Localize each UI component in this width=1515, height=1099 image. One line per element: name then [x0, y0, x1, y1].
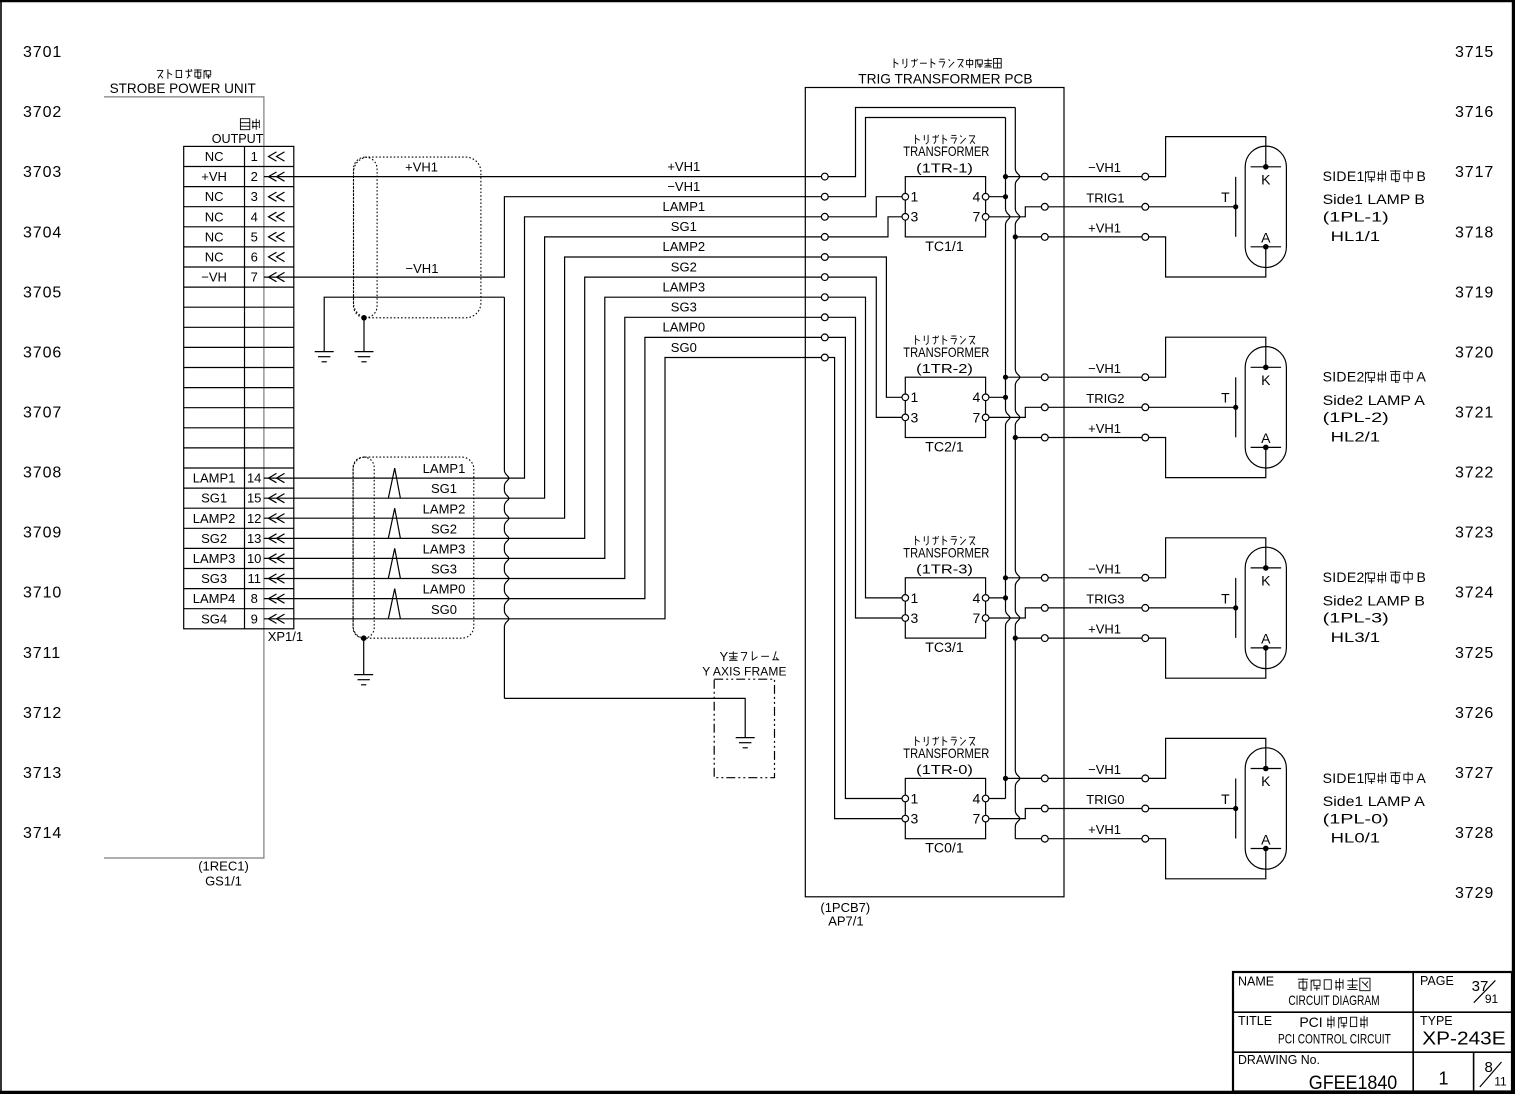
trigger electrode T of lamp HL0/1 — [1221, 779, 1236, 839]
svg-text:15: 15 — [247, 491, 261, 506]
svg-text:(1PL-1): (1PL-1) — [1323, 209, 1389, 225]
svg-text:3718: 3718 — [1455, 224, 1494, 241]
twisted pair mark LAMP3/SG3 — [388, 548, 400, 578]
svg-text:3714: 3714 — [23, 825, 62, 842]
svg-text:LAMP2: LAMP2 — [423, 501, 466, 516]
svg-text:14: 14 — [247, 471, 261, 486]
svg-text:GS1/1: GS1/1 — [205, 873, 242, 888]
trig transformer PCB board outline AP7/1 — [805, 88, 1064, 897]
svg-text:10: 10 — [247, 551, 261, 566]
svg-text:3710: 3710 — [23, 585, 62, 602]
svg-text:11: 11 — [1494, 1074, 1507, 1088]
svg-text:3719: 3719 — [1455, 284, 1494, 301]
svg-text:Side2 LAMP B: Side2 LAMP B — [1323, 593, 1425, 608]
trigger electrode T of lamp HL1/1 — [1221, 177, 1236, 237]
svg-text:TRIG1: TRIG1 — [1086, 190, 1124, 205]
svg-text:LAMP0: LAMP0 — [423, 582, 466, 597]
svg-text:SG3: SG3 — [201, 571, 227, 586]
wire SG1 from XP1 row to transformer TC1/1 pin 3 — [264, 217, 905, 498]
svg-text:TRIG0: TRIG0 — [1086, 792, 1124, 807]
svg-text:TRIG3: TRIG3 — [1086, 592, 1124, 607]
svg-text:3: 3 — [251, 189, 258, 204]
svg-text:5: 5 — [251, 229, 258, 244]
net labels -VH1 TRIG1 +VH1 at lamp 1 — [1086, 160, 1124, 235]
left grid row numbers 3701-3714 — [23, 44, 62, 842]
svg-text:7: 7 — [973, 209, 981, 225]
wire TC1/1 pin4 to -VH1 bus — [986, 196, 1006, 198]
svg-text:(1TR-0): (1TR-0) — [916, 762, 973, 777]
svg-text:1: 1 — [911, 790, 919, 806]
svg-text:+VH1: +VH1 — [1088, 622, 1121, 637]
svg-text:TC0/1: TC0/1 — [925, 841, 963, 856]
svg-text:LAMP1: LAMP1 — [662, 199, 705, 214]
wire TC3/1 pin4 to -VH1 bus — [986, 597, 1006, 599]
svg-text:8: 8 — [251, 591, 258, 606]
svg-text:SG0: SG0 — [671, 340, 697, 355]
wire TRIG0 from TC0/1 pin7 to lamp trigger — [986, 809, 1236, 819]
svg-text:3723: 3723 — [1455, 525, 1494, 542]
svg-text:NC: NC — [205, 189, 224, 204]
svg-text:A: A — [1261, 831, 1271, 847]
svg-text:CIRCUIT DIAGRAM: CIRCUIT DIAGRAM — [1288, 992, 1379, 1008]
lamp HL2/1 name labels — [1323, 369, 1427, 445]
svg-text:T: T — [1221, 390, 1230, 406]
svg-text:A: A — [1261, 430, 1271, 446]
lamp HL3/1 name labels — [1323, 569, 1426, 645]
svg-text:LAMP2: LAMP2 — [662, 239, 705, 254]
lamp HL1/1 name labels — [1323, 168, 1426, 244]
svg-text:TRANSFORMER: TRANSFORMER — [903, 344, 989, 360]
svg-text:7: 7 — [973, 409, 981, 425]
svg-text:LAMP3: LAMP3 — [662, 279, 705, 294]
(1REC1) GS1/1 unit reference labels — [198, 859, 249, 889]
svg-text:SG1: SG1 — [431, 481, 457, 496]
svg-text:+VH: +VH — [201, 169, 227, 184]
svg-text:Side2 LAMP A: Side2 LAMP A — [1323, 393, 1425, 408]
svg-text:(1PL-0): (1PL-0) — [1323, 810, 1389, 826]
svg-text:3: 3 — [911, 209, 919, 225]
svg-text:3: 3 — [911, 409, 919, 425]
svg-text:TC3/1: TC3/1 — [925, 640, 963, 655]
svg-text:B: B — [1417, 168, 1426, 184]
svg-text:3: 3 — [911, 811, 919, 827]
svg-text:+VH1: +VH1 — [667, 159, 700, 174]
svg-text:SIDE2: SIDE2 — [1323, 369, 1365, 385]
wire +VH1 output to lamp HL1/1 anode — [1013, 234, 1018, 239]
svg-text:3728: 3728 — [1455, 825, 1494, 842]
svg-text:TC2/1: TC2/1 — [925, 439, 963, 454]
svg-text:K: K — [1261, 573, 1271, 589]
svg-text:LAMP2: LAMP2 — [193, 511, 236, 526]
svg-text:K: K — [1261, 773, 1271, 789]
svg-text:+VH1: +VH1 — [1088, 822, 1121, 837]
svg-text:LAMP1: LAMP1 — [423, 461, 466, 476]
connector chevron arrows on XP1 rows — [269, 152, 285, 624]
svg-text:3708: 3708 — [23, 465, 62, 482]
svg-text:3722: 3722 — [1455, 465, 1494, 482]
svg-text:3704: 3704 — [23, 224, 62, 241]
svg-text:PAGE: PAGE — [1420, 974, 1454, 988]
trigger electrode T of lamp HL2/1 — [1221, 377, 1236, 437]
svg-text:LAMP0: LAMP0 — [662, 320, 705, 335]
svg-text:SIDE1: SIDE1 — [1323, 770, 1365, 786]
PCB edge connector circles (left entries) — [821, 173, 828, 361]
Y axis frame (dash-dot box) with labels — [702, 649, 786, 778]
transformer TC1/1 (1TR-1) — [903, 135, 989, 254]
svg-text:3720: 3720 — [1455, 345, 1494, 362]
svg-text:SG3: SG3 — [671, 300, 697, 315]
svg-text:XP-243E: XP-243E — [1422, 1027, 1505, 1048]
svg-text:LAMP3: LAMP3 — [423, 542, 466, 557]
shield drain dot and ground for +VH1/-VH1 shield — [355, 315, 374, 362]
svg-text:3729: 3729 — [1455, 885, 1494, 902]
svg-text:Side1 LAMP B: Side1 LAMP B — [1323, 192, 1425, 207]
net labels -VH1 TRIG2 +VH1 at lamp 2 — [1086, 361, 1124, 436]
svg-text:SIDE2: SIDE2 — [1323, 569, 1365, 585]
svg-text:(1PL-3): (1PL-3) — [1323, 610, 1389, 626]
wire -VH1 output to lamp HL3/1 cathode — [1003, 575, 1008, 580]
svg-text:TYPE: TYPE — [1420, 1014, 1453, 1028]
output connector circles (PCB right and cable side) — [1041, 173, 1148, 842]
svg-text:A: A — [1417, 369, 1427, 385]
svg-text:3721: 3721 — [1455, 405, 1494, 422]
svg-text:11: 11 — [247, 571, 261, 586]
svg-text:13: 13 — [247, 531, 261, 546]
svg-text:1: 1 — [1438, 1068, 1448, 1088]
svg-text:7: 7 — [973, 610, 981, 626]
wire +VH1 output to lamp HL3/1 anode — [1013, 636, 1018, 641]
svg-text:A: A — [1261, 230, 1271, 246]
svg-text:SG1: SG1 — [671, 219, 697, 234]
svg-text:3717: 3717 — [1455, 164, 1494, 181]
svg-text:TRANSFORMER: TRANSFORMER — [903, 745, 989, 761]
svg-text:3712: 3712 — [23, 705, 62, 722]
flash lamp HL2/1 (discharge tube) — [1245, 347, 1286, 468]
svg-text:3725: 3725 — [1455, 645, 1494, 662]
svg-text:T: T — [1221, 189, 1230, 205]
svg-text:B: B — [1417, 569, 1426, 585]
strobe power unit boundary line GS1/1 — [104, 97, 264, 858]
svg-text:PCI: PCI — [1299, 1014, 1322, 1030]
wire LAMP1 from XP1 row to transformer TC1/1 pin 1 — [264, 197, 905, 478]
svg-text:4: 4 — [251, 209, 258, 224]
trigger electrode T of lamp HL3/1 — [1221, 578, 1236, 638]
svg-text:−VH1: −VH1 — [1088, 561, 1121, 576]
svg-text:Side1 LAMP A: Side1 LAMP A — [1323, 794, 1425, 809]
svg-text:1: 1 — [251, 149, 258, 164]
svg-text:+VH1: +VH1 — [1088, 220, 1121, 235]
svg-text:TRANSFORMER: TRANSFORMER — [903, 544, 989, 560]
svg-text:6: 6 — [251, 250, 258, 265]
wire LAMP3 from XP1 row to transformer TC3/1 pin 1 — [264, 297, 905, 598]
svg-text:3713: 3713 — [23, 765, 62, 782]
svg-text:9: 9 — [251, 611, 258, 626]
net labels -VH1 TRIG0 +VH1 at lamp 0 — [1086, 762, 1124, 837]
transformer pin circles — [902, 193, 989, 822]
svg-text:SG4: SG4 — [201, 611, 227, 626]
svg-text:NC: NC — [205, 149, 224, 164]
twisted pair mark LAMP1/SG1 — [388, 468, 400, 498]
svg-text:(1PL-2): (1PL-2) — [1323, 409, 1389, 425]
svg-text:91: 91 — [1485, 992, 1499, 1006]
transformer TC0/1 (1TR-0) — [903, 736, 989, 855]
svg-text:AP7/1: AP7/1 — [828, 914, 863, 929]
svg-text:4: 4 — [973, 590, 981, 606]
wire TC0/1 pin4 to -VH1 bus (bus end) — [986, 798, 1006, 800]
title block frame — [1233, 972, 1512, 1092]
svg-text:A: A — [1261, 631, 1271, 647]
svg-text:NC: NC — [205, 250, 224, 265]
svg-text:3701: 3701 — [23, 44, 62, 61]
ground (chassis, left) — [315, 352, 334, 362]
title block texts — [1238, 974, 1507, 1094]
svg-text:−VH1: −VH1 — [1088, 160, 1121, 175]
svg-text:3: 3 — [911, 610, 919, 626]
wire +VH1 output to lamp HL0/1 anode — [1015, 839, 1266, 879]
terminal block XP1 outline — [184, 146, 294, 628]
transformer TC2/1 (1TR-2) — [903, 335, 989, 454]
wire TC2/1 pin4 to -VH1 bus — [986, 396, 1006, 398]
wire TRIG3 from TC3/1 pin7 to lamp trigger — [986, 608, 1236, 618]
svg-text:K: K — [1261, 171, 1271, 187]
svg-text:3702: 3702 — [23, 104, 62, 121]
svg-text:TITLE: TITLE — [1238, 1014, 1272, 1028]
wire LAMP2 from XP1 row to transformer TC2/1 pin 1 — [264, 257, 905, 518]
svg-text:LAMP1: LAMP1 — [193, 471, 236, 486]
svg-text:(1TR-1): (1TR-1) — [916, 160, 973, 175]
twisted pair mark LAMP2/SG2 — [388, 508, 400, 538]
svg-text:3727: 3727 — [1455, 765, 1494, 782]
pin labels 1 3 4 7 of TC3/1 — [911, 590, 981, 626]
svg-text:3711: 3711 — [23, 645, 61, 662]
svg-text:3703: 3703 — [23, 164, 62, 181]
svg-text:1: 1 — [911, 189, 919, 205]
svg-text:SG2: SG2 — [431, 521, 457, 536]
svg-text:3724: 3724 — [1455, 585, 1494, 602]
terminal block XP1 pin name and number labels — [193, 149, 262, 626]
lamp HL0/1 name labels — [1323, 770, 1427, 846]
wire -VH1 output to lamp HL2/1 cathode — [1003, 375, 1008, 380]
wire LAMP0 from XP1 row to transformer TC0/1 pin 1 — [264, 337, 905, 798]
svg-text:−VH: −VH — [201, 270, 227, 285]
flash lamp HL3/1 (discharge tube) — [1245, 547, 1286, 668]
svg-text:STROBE POWER UNIT: STROBE POWER UNIT — [110, 80, 257, 96]
svg-text:TRANSFORMER: TRANSFORMER — [903, 143, 989, 159]
svg-text:HL0/1: HL0/1 — [1331, 830, 1381, 846]
svg-text:(1PCB7): (1PCB7) — [820, 900, 870, 915]
svg-text:A: A — [1417, 770, 1427, 786]
shield (dashed) around LAMP/SG pairs — [353, 457, 474, 638]
wire -VH1 vertical bus (right side) with crossover jogs — [1006, 118, 1011, 799]
svg-text:T: T — [1221, 590, 1230, 606]
svg-text:NC: NC — [205, 229, 224, 244]
svg-text:3706: 3706 — [23, 345, 62, 362]
wire SG3 from XP1 row to transformer TC3/1 pin 3 — [264, 317, 905, 618]
net labels -VH1 TRIG3 +VH1 at lamp 3 — [1086, 561, 1124, 636]
svg-text:HL2/1: HL2/1 — [1331, 428, 1381, 444]
svg-text:+VH1: +VH1 — [1088, 421, 1121, 436]
svg-text:2: 2 — [251, 169, 258, 184]
svg-text:SG3: SG3 — [431, 562, 457, 577]
svg-text:HL3/1: HL3/1 — [1331, 629, 1381, 645]
wire SG0 from XP1 row to transformer TC0/1 pin 3 — [264, 358, 905, 819]
svg-text:OUTPUT: OUTPUT — [212, 131, 264, 146]
wire +VH1 vertical bus (right side) with crossover jogs — [1015, 108, 1020, 839]
pin labels 1 3 4 7 of TC1/1 — [911, 189, 981, 225]
svg-text:3715: 3715 — [1455, 44, 1494, 61]
svg-text:DRAWING No.: DRAWING No. — [1238, 1052, 1320, 1067]
wire TRIG2 from TC2/1 pin7 to lamp trigger — [986, 407, 1236, 417]
wire +VH1 from XP1 pin2 to PCB, up-and-over bus to +VH1 vertical bus — [264, 108, 1015, 177]
svg-text:TRIG TRANSFORMER PCB: TRIG TRANSFORMER PCB — [858, 71, 1032, 87]
svg-text:HL1/1: HL1/1 — [1331, 228, 1381, 244]
wire -VH1 from XP1 pin7, jog up, into PCB and over to -VH1 vertical bus — [264, 118, 1006, 278]
svg-text:SG2: SG2 — [201, 531, 227, 546]
svg-text:SIDE1: SIDE1 — [1323, 168, 1365, 184]
svg-text:−VH1: −VH1 — [667, 179, 700, 194]
wire +VH1 output to lamp HL2/1 anode — [1013, 435, 1018, 440]
svg-text:GFEE1840: GFEE1840 — [1309, 1073, 1397, 1094]
svg-text:−VH1: −VH1 — [1088, 762, 1121, 777]
svg-text:1: 1 — [911, 590, 919, 606]
svg-text:T: T — [1221, 791, 1230, 807]
strobe power unit title (JP + EN) — [110, 69, 257, 96]
flash lamp HL0/1 (discharge tube) — [1245, 748, 1286, 869]
flash lamp HL1/1 (discharge tube) — [1245, 146, 1286, 267]
svg-text:LAMP4: LAMP4 — [193, 591, 236, 606]
svg-text:(1TR-3): (1TR-3) — [916, 562, 973, 577]
svg-text:3705: 3705 — [23, 284, 62, 301]
wire -VH1 output to lamp HL1/1 cathode — [1003, 174, 1008, 179]
svg-text:TRIG2: TRIG2 — [1086, 391, 1124, 406]
svg-text:K: K — [1261, 372, 1271, 388]
output header label — [212, 119, 264, 146]
svg-text:PCI CONTROL CIRCUIT: PCI CONTROL CIRCUIT — [1278, 1030, 1391, 1046]
svg-text:1: 1 — [911, 389, 919, 405]
svg-text:XP1/1: XP1/1 — [268, 629, 303, 644]
svg-text:3709: 3709 — [23, 525, 62, 542]
svg-text:12: 12 — [247, 511, 261, 526]
svg-text:7: 7 — [251, 270, 258, 285]
wire -VH1 output to lamp HL0/1 cathode — [1003, 776, 1008, 781]
svg-text:4: 4 — [973, 189, 981, 205]
svg-text:4: 4 — [973, 790, 981, 806]
svg-text:(1REC1): (1REC1) — [198, 859, 249, 874]
svg-text:+VH1: +VH1 — [405, 160, 438, 175]
transformer TC3/1 (1TR-3) — [903, 536, 989, 655]
svg-text:3716: 3716 — [1455, 104, 1494, 121]
svg-text:−VH1: −VH1 — [1088, 361, 1121, 376]
svg-text:LAMP3: LAMP3 — [193, 551, 236, 566]
svg-text:SG1: SG1 — [201, 491, 227, 506]
svg-text:Y AXIS FRAME: Y AXIS FRAME — [702, 665, 786, 679]
trig transformer PCB title (JP + EN) — [858, 59, 1032, 87]
svg-text:NC: NC — [205, 209, 224, 224]
svg-text:SG2: SG2 — [671, 259, 697, 274]
svg-text:3707: 3707 — [23, 405, 62, 422]
shield drain dot and ground for LAMP/SG shield — [354, 635, 373, 684]
pin labels 1 3 4 7 of TC0/1 — [911, 790, 981, 826]
ground (Y axis frame) — [736, 738, 755, 748]
shield (dashed) around +VH1/-VH1 pair — [354, 157, 481, 318]
chassis ground wire from strobe area to Y axis frame, with crossover jogs — [324, 297, 504, 351]
svg-text:−VH1: −VH1 — [406, 261, 439, 276]
pin labels 1 3 4 7 of TC2/1 — [911, 389, 981, 425]
svg-text:7: 7 — [973, 811, 981, 827]
wire TRIG1 from TC1/1 pin7 to lamp trigger — [986, 207, 1236, 217]
(1PCB7) AP7/1 reference labels — [820, 900, 870, 929]
svg-text:SG0: SG0 — [431, 602, 457, 617]
svg-text:3726: 3726 — [1455, 705, 1494, 722]
twisted pair mark LAMP0/SG0 — [388, 589, 400, 619]
svg-text:4: 4 — [973, 389, 981, 405]
svg-text:TC1/1: TC1/1 — [925, 239, 963, 254]
svg-text:(1TR-2): (1TR-2) — [916, 361, 973, 376]
right grid row numbers 3715-3729 — [1455, 44, 1494, 902]
svg-text:Y: Y — [720, 649, 729, 664]
wire SG2 from XP1 row to transformer TC2/1 pin 3 — [264, 277, 905, 538]
svg-text:NAME: NAME — [1238, 975, 1274, 989]
